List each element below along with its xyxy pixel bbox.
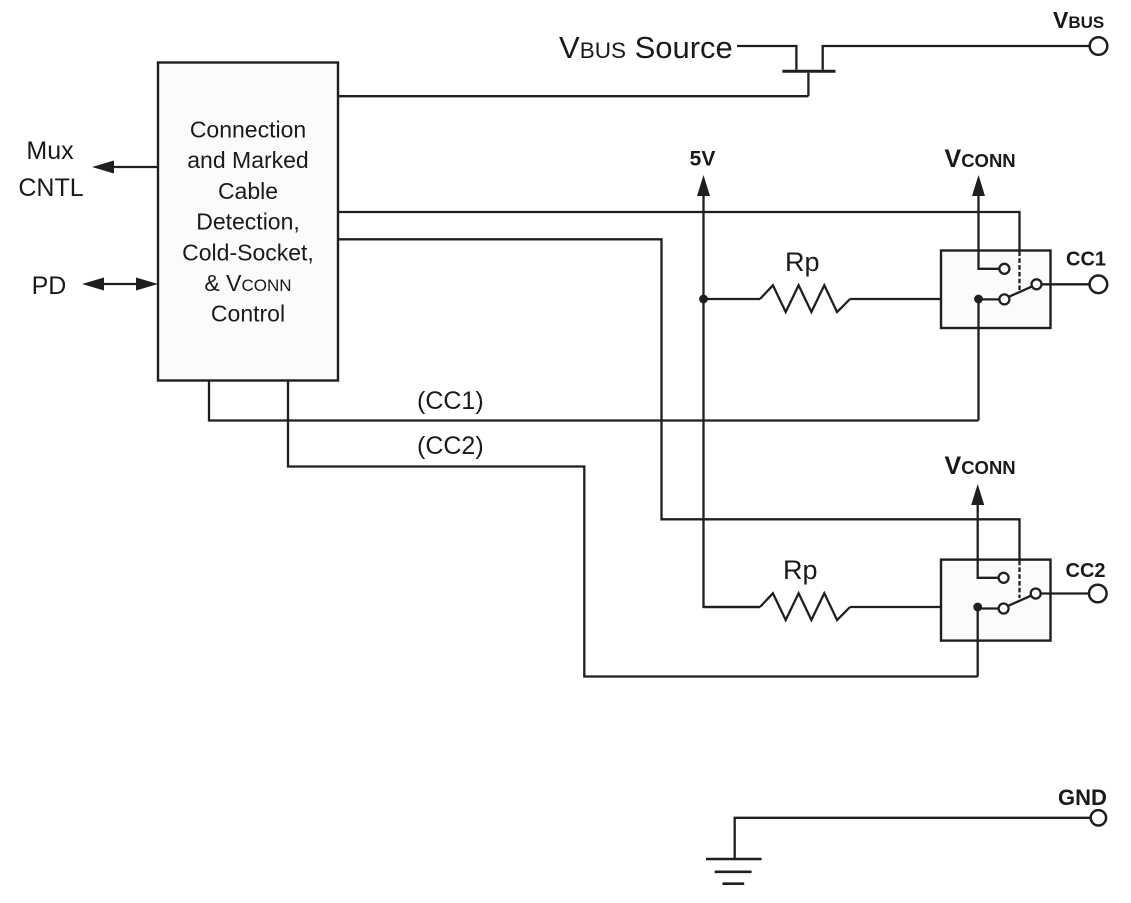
switch S2 upper contact xyxy=(999,573,1009,583)
switch S1 box xyxy=(941,251,1051,329)
svg-text:VBUS Source: VBUS Source xyxy=(559,30,733,65)
node CC2 terminal circle xyxy=(1089,585,1107,603)
svg-text:VCONN: VCONN xyxy=(945,452,1016,480)
svg-text:5V: 5V xyxy=(690,148,716,171)
svg-text:CC2: CC2 xyxy=(1066,560,1106,582)
switch S2 actuator dashed xyxy=(1018,561,1020,598)
switch S1 actuator dashed xyxy=(1018,252,1020,291)
wire Mux CNTL arrow from U1 left edge xyxy=(92,161,158,174)
switch S2 box xyxy=(941,560,1051,641)
svg-text:Rp: Rp xyxy=(785,247,820,277)
wire Rp2 to switch S2 xyxy=(850,606,978,608)
power VCONN1 arrow xyxy=(972,175,985,196)
transistor Q1 source lead xyxy=(823,46,1090,70)
svg-text:Cable: Cable xyxy=(218,178,278,204)
wire S2 pole to CC2 terminal xyxy=(1041,592,1089,594)
switch S1 arm xyxy=(1009,287,1032,297)
svg-text:(CC1): (CC1) xyxy=(417,387,484,415)
svg-text:GND: GND xyxy=(1058,785,1107,810)
wire S1 dot to lower contact xyxy=(979,298,1000,300)
wire S2 dot to lower contact xyxy=(978,607,999,609)
wire VCONN2 stem to upper contact xyxy=(978,504,999,578)
wire (CC2) from U1 bottom xyxy=(288,381,978,677)
svg-text:Detection,: Detection, xyxy=(196,209,300,235)
power 5V arrow xyxy=(697,175,710,196)
resistor Rp2 xyxy=(760,593,850,620)
svg-text:VCONN: VCONN xyxy=(945,145,1016,173)
resistor Rp1 xyxy=(760,285,850,312)
svg-text:PD: PD xyxy=(32,272,67,300)
node Mux CNTL label xyxy=(18,137,83,202)
svg-text:Rp: Rp xyxy=(783,555,818,585)
wire gate to U1 xyxy=(338,95,808,97)
wire U1 to S1 switch control xyxy=(338,212,1020,251)
junction dot S2 common xyxy=(973,603,982,612)
svg-text:Connection: Connection xyxy=(190,117,306,143)
switch S2 arm xyxy=(1008,596,1031,606)
wire PD bidirectional arrow xyxy=(82,278,158,291)
wire 5V dot to Rp1 xyxy=(704,298,761,300)
wire Rp1 to switch S1 xyxy=(850,298,979,300)
wire S2 dot down to CC2 net xyxy=(977,607,979,677)
wire (CC1) from U1 bottom xyxy=(209,381,979,421)
wire S1 pole to CC1 terminal xyxy=(1042,283,1090,285)
transistor Q1 pass FET channel bar xyxy=(782,70,835,73)
node CC1 terminal circle xyxy=(1090,276,1108,294)
svg-text:CC1: CC1 xyxy=(1066,249,1106,271)
switch S2 pole xyxy=(1031,589,1041,599)
svg-text:(CC2): (CC2) xyxy=(417,432,484,460)
ground symbol bar 1 xyxy=(706,858,762,861)
switch S1 lower contact xyxy=(999,294,1009,304)
wire Rp2 feed from 5V rail xyxy=(704,606,761,608)
ground symbol bar 3 xyxy=(723,882,745,885)
svg-text:CNTL: CNTL xyxy=(18,174,83,202)
svg-text:Mux: Mux xyxy=(26,137,74,165)
wire VCONN1 stem to upper contact xyxy=(979,195,1000,269)
power VCONN2 arrow xyxy=(971,484,984,505)
wire 5V rail vertical xyxy=(704,195,761,607)
node GND terminal circle xyxy=(1091,810,1106,825)
ground symbol bar 2 xyxy=(715,870,752,873)
wire S1 dot down to CC1 net xyxy=(977,299,979,421)
wire U1 to S2 switch control xyxy=(338,239,1020,559)
junction dot 5V to Rp1 xyxy=(699,295,708,304)
svg-text:Cold-Socket,: Cold-Socket, xyxy=(182,239,314,265)
wire VBUS Source to pass FET drain xyxy=(737,46,796,70)
junction dot S1 common xyxy=(974,295,983,304)
switch S1 pole xyxy=(1032,279,1042,289)
svg-text:VBUS: VBUS xyxy=(1053,7,1104,33)
control block U1: Connection and Marked Cable Detection box xyxy=(158,63,338,381)
node VBUS terminal circle xyxy=(1090,37,1108,55)
switch S1 upper contact xyxy=(999,264,1009,274)
transistor Q1 gate stem xyxy=(807,73,809,96)
wire GND rail xyxy=(735,818,1090,858)
switch S2 lower contact xyxy=(999,604,1009,614)
svg-text:Control: Control xyxy=(211,301,285,327)
svg-text:and Marked: and Marked xyxy=(187,147,308,173)
